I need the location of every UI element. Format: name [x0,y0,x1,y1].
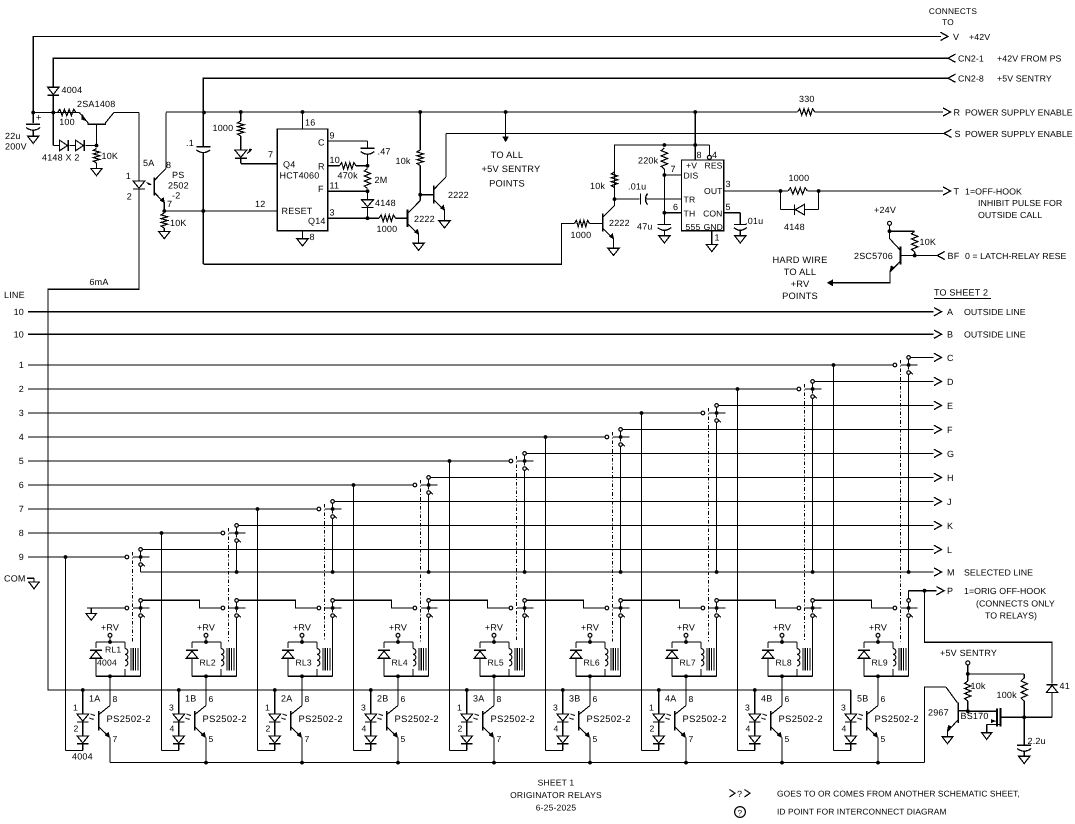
wire letter line G [526,452,933,454]
svg-text:TR: TR [684,195,696,205]
svg-text:0 = LATCH-RELAY RESE: 0 = LATCH-RELAY RESE [965,251,1067,261]
svg-text:7: 7 [167,199,172,209]
svg-text:OUT: OUT [704,186,723,196]
diode flyback (RL3) [287,642,289,648]
svg-text:555: 555 [686,222,701,232]
svg-text:4004: 4004 [62,85,83,95]
relay coil RL1 [124,642,126,649]
svg-text:6: 6 [785,694,790,704]
svg-text:1: 1 [73,703,78,713]
wire contact to relay coil node [908,617,910,676]
linkage relay RL4 (dash-dot) [420,480,422,642]
svg-text:10: 10 [14,330,24,340]
svg-text:1: 1 [265,703,270,713]
svg-text:CON: CON [703,209,722,219]
svg-text:RESET: RESET [282,206,313,216]
diode pair 4148 X 2 [52,113,54,146]
pin 8 [694,145,696,160]
phototransistor [866,711,868,731]
relay coil RL6 [604,642,606,649]
svg-text:OUTSIDE LINE: OUTSIDE LINE [964,330,1026,340]
diode flyback (RL8) [767,642,769,648]
svg-text:2SA1408: 2SA1408 [77,99,115,109]
svg-text:9: 9 [19,552,24,562]
svg-text:2222: 2222 [609,218,630,228]
svg-text:DIS: DIS [684,171,699,181]
resistor 1000 [575,220,590,226]
wire P to latch circuit [925,591,1053,684]
junction line 9 to opto LED [64,555,68,559]
linkage relay RL7 (dash-dot) [708,408,710,642]
svg-text:J: J [947,497,952,507]
svg-text:D: D [947,377,954,387]
svg-text:3A: 3A [473,694,484,704]
linkage relay RL6 (dash-dot) [612,432,614,642]
wire contact to M line [812,398,814,572]
svg-text:TO RELAYS): TO RELAYS) [985,611,1037,621]
svg-text:G: G [947,449,954,459]
wire RESET node [201,209,205,213]
wire letter line H [430,476,933,478]
svg-text:2: 2 [74,724,79,734]
svg-text:HCT4060: HCT4060 [280,171,320,181]
svg-text:3: 3 [361,703,366,713]
svg-text:4: 4 [170,724,175,734]
wire [203,224,574,265]
svg-text:4004: 4004 [97,658,117,668]
svg-text:HARD WIRE: HARD WIRE [773,255,828,265]
svg-text:3: 3 [745,703,750,713]
svg-text:1: 1 [715,233,720,243]
svg-text:3B: 3B [569,694,580,704]
linkage relay RL1 (dash-dot) [132,552,134,642]
svg-text:1=ORIG OFF-HOOK: 1=ORIG OFF-HOOK [964,586,1046,596]
relay contact RL7 upper (line 3) [701,411,705,415]
svg-text:2967: 2967 [928,708,949,718]
relay contact RL8 upper (line 2) [797,387,801,391]
photon arrows [860,714,863,716]
resistor 2M [364,169,370,189]
svg-text:H: H [947,473,954,483]
svg-text:+RV: +RV [773,623,791,633]
svg-text:TH: TH [684,209,696,219]
svg-text:4: 4 [19,432,24,442]
svg-text:12: 12 [255,199,265,209]
photon arrows [380,714,383,716]
svg-text:(CONNECTS ONLY: (CONNECTS ONLY [976,599,1055,609]
svg-text:8: 8 [305,694,310,704]
svg-text:+5V SENTRY: +5V SENTRY [482,164,541,174]
pin 8 + ground [302,231,304,239]
svg-text:?: ? [738,809,743,818]
svg-text:10K: 10K [920,237,937,247]
photon arrows [188,714,191,716]
svg-text:GND: GND [704,222,723,232]
junction line 3 to opto LED [640,411,644,415]
svg-text:RL7: RL7 [680,658,696,668]
svg-text:R: R [318,161,325,171]
optocoupler 3A PS2502-2 [493,676,495,705]
svg-text:2222: 2222 [414,214,435,224]
diode flyback (RL1) [95,642,97,648]
svg-text:3: 3 [330,208,335,218]
wire contact to M line [332,518,334,572]
svg-text:200V: 200V [5,142,27,152]
relay contact RL3 upper (line 7) [317,507,321,511]
relay contact RL2 lower (P bus) [221,606,225,610]
svg-text:C: C [318,138,325,148]
svg-text:2M: 2M [375,175,388,185]
svg-text:6: 6 [209,694,214,704]
wire net BF [901,255,938,257]
relay contact RL8 lower (P bus) [797,606,801,610]
linkage relay RL2 (dash-dot) [228,528,230,642]
wire contact to relay coil node [716,617,718,676]
svg-text:PS2502-2: PS2502-2 [779,713,824,724]
svg-text:100k: 100k [997,690,1018,700]
transistor 2222 (a) [407,210,409,227]
svg-text:+RV: +RV [485,623,503,633]
svg-text:4: 4 [842,724,847,734]
resistor 10K [890,230,915,232]
pin 5 CON + capacitor .01u [724,212,741,214]
svg-text:+RV: +RV [197,623,215,633]
wire P bus jog [622,600,701,608]
svg-text:8: 8 [113,694,118,704]
wire net S POWER SUPPLY ENABLE [446,132,944,134]
svg-text:4: 4 [554,724,559,734]
relay contact RL3 lower (P bus) [317,606,321,610]
diode flyback (RL4) [383,642,385,648]
svg-text:C: C [947,353,954,363]
photon arrows [668,714,671,716]
resistor 1000 [379,215,396,221]
svg-text:2.2u: 2.2u [1028,736,1046,746]
svg-text:7: 7 [305,734,310,744]
svg-text:OUTSIDE LINE: OUTSIDE LINE [964,307,1026,317]
svg-text:6: 6 [673,202,678,212]
relay contact RL6 upper (line 4) [605,435,609,439]
svg-text:11: 11 [330,181,340,191]
svg-text:6mA: 6mA [89,277,108,287]
svg-text:PS: PS [172,170,184,180]
svg-text:R: R [954,107,961,117]
svg-text:5: 5 [401,734,406,744]
relay contact RL6 lower (P bus) [605,606,609,610]
ground [91,169,102,176]
svg-text:16: 16 [305,118,315,128]
svg-text:BS170: BS170 [961,711,989,721]
svg-text:Q14: Q14 [308,216,326,226]
svg-text:K: K [947,521,953,531]
wire LED return to line [834,750,851,752]
svg-text:7: 7 [689,734,694,744]
svg-text:1A: 1A [89,694,100,704]
optocoupler 5A PS2502-2 LED [138,113,140,181]
svg-text:INHIBIT PULSE FOR: INHIBIT PULSE FOR [978,198,1062,208]
svg-text:2SC5706: 2SC5706 [854,251,893,261]
resistor 10K (5A emitter) [161,213,167,228]
svg-text:2: 2 [650,724,655,734]
capacitor 2.2u [1023,717,1025,745]
relay contact RL4 lower (P bus) [413,606,417,610]
photon arrows [92,714,95,716]
optocoupler 2A PS2502-2 [301,676,303,705]
optocoupler 5B PS2502-2 [877,676,879,705]
resistor 100 [58,109,77,115]
resistor 1000 (LED feed) [239,110,243,114]
diode 4148 (bypass) [780,191,782,210]
capacitor .01u [615,198,640,200]
svg-text:TO ALL: TO ALL [491,150,524,160]
op IC Q4 HCT4060 [277,129,327,231]
capacitor .47 [367,141,369,148]
wire LED return to line [66,750,83,752]
svg-text:ID POINT FOR INTERCONNECT DIAG: ID POINT FOR INTERCONNECT DIAGRAM [777,807,947,817]
svg-text:8: 8 [166,160,171,170]
svg-text:S: S [955,129,961,139]
svg-text:POWER SUPPLY ENABLE: POWER SUPPLY ENABLE [965,107,1073,117]
svg-text:4148 X 2: 4148 X 2 [42,153,80,163]
relay contact RL5 lower (P bus) [509,606,513,610]
resistor 100k [968,673,1024,675]
svg-text:RL8: RL8 [776,658,792,668]
wire P bus jog [814,600,893,608]
svg-text:1000: 1000 [377,224,398,234]
relay coil RL9 [892,642,894,649]
svg-text:5: 5 [19,456,24,466]
svg-text:B: B [947,330,953,340]
svg-text:1B: 1B [185,694,196,704]
svg-text:RL6: RL6 [584,658,600,668]
svg-text:Q4: Q4 [283,160,295,170]
relay coil RL4 [412,642,414,649]
svg-text:1=OFF-HOOK: 1=OFF-HOOK [965,186,1022,196]
svg-text:8: 8 [19,528,24,538]
svg-text:100: 100 [59,117,75,127]
phototransistor [482,711,484,731]
wire contact to relay coil node [524,617,526,676]
relay coil RL8 [796,642,798,649]
svg-text:10K: 10K [170,218,187,228]
svg-text:8: 8 [310,232,315,242]
wire P bus jog [718,600,797,608]
photon arrows [476,714,479,716]
svg-text:330: 330 [799,94,815,104]
svg-text:.01u: .01u [628,182,646,192]
svg-text:2A: 2A [281,694,292,704]
junction line 8 to opto LED [160,531,164,535]
svg-text:8: 8 [697,150,702,160]
svg-text:POWER SUPPLY ENABLE: POWER SUPPLY ENABLE [965,129,1073,139]
pin 16 [301,110,305,114]
relay contact RL9 lower (P bus) [893,606,897,610]
junction line 1 to opto LED [832,363,836,367]
svg-text:+RV: +RV [677,623,695,633]
wire net R POWER SUPPLY ENABLE [166,111,798,113]
svg-text:10k: 10k [971,681,986,691]
IC 555 timer [682,160,724,231]
junction line 6 to opto LED [352,483,356,487]
LED indicator [240,136,242,150]
svg-text:LINE: LINE [4,290,25,300]
wire net T [819,190,943,192]
phototransistor [770,711,772,731]
wire letter line C [910,356,933,358]
svg-text:RL2: RL2 [200,658,216,668]
wire TH [663,211,667,215]
svg-text:RES: RES [705,161,723,171]
svg-text:10: 10 [14,307,24,317]
svg-text:9: 9 [330,131,335,141]
svg-text:M: M [947,567,955,577]
svg-text:4148: 4148 [375,198,396,208]
wire contact to relay coil node [620,617,622,676]
wire contact to M line [908,374,910,572]
svg-text:-2: -2 [172,191,180,201]
wire contact to relay coil node [812,617,814,676]
wire P bus jog [142,600,221,608]
relay coil RL7 [700,642,702,649]
junction line 7 to opto LED [256,507,260,511]
svg-text:3: 3 [19,408,24,418]
svg-text:4004: 4004 [72,752,93,762]
relay contact RL1 upper (line 9) [125,555,129,559]
diode 41 [1047,684,1058,686]
svg-text:1000: 1000 [789,173,810,183]
relay contact RL5 upper (line 5) [509,459,513,463]
relay contact RL2 upper (line 8) [221,531,225,535]
diode flyback (RL7) [671,642,673,648]
resistor 1000 (T line) [779,189,783,193]
wire P bus jog [238,600,317,608]
transistor 2222 (b) [420,194,434,196]
symbol off-sheet connector >?> [730,790,736,797]
svg-text:2: 2 [19,384,24,394]
svg-text:POINTS: POINTS [489,179,525,189]
svg-text:22u: 22u [5,131,21,141]
resistor 220k [661,148,667,169]
pin 10 / R + resistor 470k [328,165,340,167]
pin 3 OUT / wire net T [724,190,780,192]
linkage relay RL3 (dash-dot) [324,504,326,642]
wire contact to relay coil node [236,617,238,676]
svg-text:+RV: +RV [101,623,119,633]
wire letter line K [238,524,933,526]
wire contact to M line [524,470,526,572]
resistor 10k [967,674,969,681]
svg-text:E: E [947,401,953,411]
svg-text:2B: 2B [377,694,388,704]
linkage relay RL9 (dash-dot) [900,360,902,642]
wire net M SELECTED LINE [141,571,934,573]
svg-text:SHEET 1: SHEET 1 [538,778,575,788]
svg-text:2222: 2222 [448,190,469,200]
phototransistor [98,711,100,731]
svg-text:+42V FROM PS: +42V FROM PS [997,54,1062,64]
capacitor 47u [663,213,665,225]
svg-text:7: 7 [19,504,24,514]
symbol ID point (circled ?) [735,807,746,818]
junction line 5 to opto LED [448,459,452,463]
diode 4148 [367,191,369,199]
wire net P 1=ORIG OFF-HOOK [908,591,910,599]
svg-text:RL5: RL5 [488,658,504,668]
wire LED return to line [258,750,275,752]
svg-text:7: 7 [497,734,502,744]
optocoupler 3B PS2502-2 [589,676,591,705]
optocoupler 4A PS2502-2 [685,676,687,705]
svg-text:+RV: +RV [389,623,407,633]
ground [159,232,170,239]
wire 555 +V to rail [693,110,697,114]
svg-text:RL1: RL1 [105,645,121,655]
transistor Q 2SA1408 [88,123,106,125]
svg-text:SELECTED LINE: SELECTED LINE [964,567,1033,577]
pin 1 GND [711,231,713,245]
transistor 2222 (c) [602,213,604,231]
svg-text:10k: 10k [396,156,411,166]
svg-text:CN2-8: CN2-8 [958,74,984,84]
svg-text:4: 4 [362,724,367,734]
svg-text:1000: 1000 [213,123,234,133]
svg-text:10K: 10K [102,151,119,161]
relay contact RL7 lower (P bus) [701,606,705,610]
svg-text:3: 3 [169,703,174,713]
linkage relay RL8 (dash-dot) [804,384,806,642]
wire contact to M line [428,494,430,572]
svg-text:3: 3 [841,703,846,713]
wire net CN2-1 +42V FROM PS [53,58,948,87]
svg-text:7: 7 [113,734,118,744]
svg-text:RL4: RL4 [392,658,408,668]
pin 3 / Q14 [328,217,379,219]
wire DIS [663,173,667,177]
photon arrows [572,714,575,716]
relay coil RL2 [220,642,222,649]
svg-text:+RV: +RV [791,279,810,289]
svg-text:47u: 47u [637,222,653,232]
svg-text:4B: 4B [761,694,772,704]
svg-text:CONNECTS: CONNECTS [929,6,977,16]
svg-text:5: 5 [593,734,598,744]
svg-text:+RV: +RV [869,623,887,633]
svg-text:4: 4 [746,724,751,734]
pin 11 / F [328,190,368,192]
svg-text:2: 2 [127,192,132,202]
diode flyback (RL6) [575,642,577,648]
svg-text:7: 7 [268,150,273,160]
junction line 2 to opto LED [736,387,740,391]
svg-text:+RV: +RV [581,623,599,633]
wire letter line J [334,500,933,502]
svg-text:PS2502-2: PS2502-2 [203,713,248,724]
ground [659,236,670,243]
wire P bus jog [334,600,413,608]
svg-text:PS2502-2: PS2502-2 [299,713,344,724]
svg-text:+5V SENTRY: +5V SENTRY [997,74,1052,84]
phototransistor [674,711,676,731]
svg-text:TO ALL: TO ALL [784,267,817,277]
diode 4004 [48,87,59,94]
svg-text:BF: BF [948,251,960,261]
wire LED return to line [546,750,563,752]
svg-text:220k: 220k [638,156,659,166]
svg-text:CN2-1: CN2-1 [958,54,984,64]
svg-text:7: 7 [671,164,676,174]
svg-text:.1: .1 [186,138,194,148]
svg-text:4: 4 [712,150,717,160]
